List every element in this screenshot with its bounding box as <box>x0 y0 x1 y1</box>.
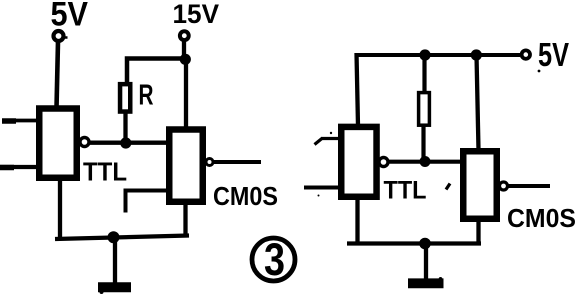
wire 15V terminal down <box>182 41 186 57</box>
wire 5V top rail (right) <box>356 53 520 57</box>
svg-text:TTL: TTL <box>384 177 427 205</box>
svg-text:5V: 5V <box>538 36 569 73</box>
resistor R body <box>120 84 130 111</box>
speck near TTL input <box>330 132 332 134</box>
resistor body (right, unlabeled) <box>419 93 430 126</box>
wire TTL bottom to ground rail (right) <box>355 199 359 244</box>
gate U1 TTL body (left) <box>39 109 77 178</box>
pin CMOS output bubble (right) <box>500 182 508 190</box>
pin TTL output bubble (right) <box>379 158 388 167</box>
wire CMOS bottom to ground rail <box>183 204 187 237</box>
node ground junction (left) <box>108 231 120 243</box>
wire CMOS output (right) <box>508 184 550 188</box>
wire TTL input 2 (right) <box>304 186 338 190</box>
wire CMOS second input stub <box>126 191 167 213</box>
terminal 5V (right) <box>522 50 530 58</box>
wire resistor bottom to output node (right) <box>421 126 425 160</box>
tick mark after TTL <box>446 184 450 190</box>
svg-text:5V: 5V <box>51 0 89 34</box>
gate U3 TTL body (right) <box>341 127 376 197</box>
wire rail down to TTL top (right) <box>357 53 359 126</box>
wire TTL input 1 (left) <box>2 119 36 123</box>
svg-text:CM0S: CM0S <box>507 203 576 233</box>
node 15V junction <box>180 54 191 65</box>
wire 15V junction to resistor top <box>127 59 186 87</box>
node ground junction (right) <box>419 238 431 250</box>
ground symbol (right) <box>408 278 444 288</box>
wire TTL input 2 (left) <box>0 165 36 169</box>
node rail-CMOS junction <box>471 49 482 60</box>
wire resistor bottom to output node <box>123 112 127 141</box>
gate U2 CMOS body (left) <box>169 130 203 202</box>
svg-text:15V: 15V <box>173 0 220 29</box>
pin CMOS output bubble (left) <box>206 159 213 166</box>
speck below 5V <box>538 70 541 73</box>
node rail-resistor junction <box>419 49 430 60</box>
figure number circle 3 <box>252 238 295 281</box>
svg-text:TTL: TTL <box>83 157 127 187</box>
wire rail down to CMOS top (right) <box>477 55 479 150</box>
terminal 15V <box>180 31 189 40</box>
wire ground stem (right) <box>424 244 428 280</box>
svg-text:R: R <box>139 80 154 112</box>
pin TTL output bubble (left) <box>80 138 89 147</box>
terminal 5V (left) <box>54 31 64 41</box>
wire ground rail (right) <box>347 241 481 245</box>
ground symbol (left) <box>98 282 131 292</box>
wire 15V rail down to CMOS top <box>184 59 188 130</box>
svg-text:3: 3 <box>264 234 285 285</box>
node TTL output junction <box>120 137 131 148</box>
wire TTL output to CMOS input <box>89 141 169 145</box>
svg-text:CM0S: CM0S <box>213 183 278 211</box>
wire CMOS bottom to ground rail (right) <box>476 220 480 244</box>
wire TTL bottom to ground rail <box>58 181 62 239</box>
wire ground rail (left) <box>55 236 189 240</box>
wire TTL output to CMOS input (right) <box>388 160 460 164</box>
gate U4 CMOS body (right) <box>463 151 497 219</box>
wire TTL input 1 with flick (right) <box>315 138 339 145</box>
wire CMOS output (left) <box>213 160 261 164</box>
wire ground stem (left) <box>113 237 117 283</box>
wire rail to resistor top (right) <box>422 55 426 93</box>
node TTL output junction (right) <box>420 156 431 167</box>
wire 5V terminal to TTL top <box>57 42 59 109</box>
